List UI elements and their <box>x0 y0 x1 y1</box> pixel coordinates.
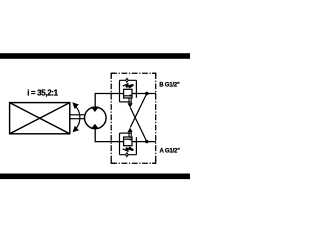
RV1 internal flow path <box>124 95 129 97</box>
relief valve RV2 (bottom, A to B) <box>120 133 137 155</box>
RV1 orifice diamond <box>126 78 129 82</box>
relief valve RV1 (top, B to A) <box>120 80 137 102</box>
RV2 pilot line top <box>120 132 132 134</box>
RV1 pilot line left <box>119 80 121 102</box>
RV1 pilot line right <box>135 80 137 98</box>
RV2 crossover wire to node B <box>130 94 147 128</box>
motor flow triangle bottom <box>91 124 99 129</box>
junction node A <box>145 140 148 143</box>
RV2 spring <box>123 147 134 151</box>
RV1 crossover wire to node A <box>130 108 147 142</box>
hydraulic motor M1 <box>85 107 107 129</box>
wire B: motor top port to port B <box>95 94 123 108</box>
top rule bar <box>0 53 190 59</box>
RV1 outlet channel <box>128 98 130 103</box>
RV1 pilot line top <box>120 79 137 81</box>
RV1 spring <box>123 84 134 88</box>
RV2 orifice diamond <box>126 153 129 157</box>
svg-text:i = 35,2:1: i = 35,2:1 <box>27 88 58 97</box>
wire A right segment <box>132 141 156 143</box>
RV2 internal flow path <box>124 138 129 140</box>
RV2 pilot line right <box>135 137 137 155</box>
gearbox G1 <box>10 103 70 134</box>
RV2 arrowhead <box>128 128 133 132</box>
rotation direction arrow (both directions) <box>72 102 80 132</box>
svg-text:A G1/2": A G1/2" <box>160 148 181 154</box>
junction node B <box>145 92 148 95</box>
wire B right segment <box>132 93 156 95</box>
bottom rule bar <box>0 174 190 180</box>
motor flow triangle top <box>91 107 99 112</box>
RV2 pilot line bottom <box>120 154 137 156</box>
RV1 pilot line bottom <box>120 101 132 103</box>
svg-text:B G1/2": B G1/2" <box>159 83 180 89</box>
RV1 outlet arrowhead <box>128 103 133 107</box>
RV2 pilot line left <box>119 133 121 155</box>
wire A: motor bottom port to port A <box>95 129 123 142</box>
RV1 valve body <box>124 89 132 98</box>
RV2 valve body <box>124 137 132 146</box>
enclosure boundary (dash-dot) <box>111 73 156 163</box>
shaft <box>70 115 84 119</box>
RV2 inlet channel <box>128 132 130 137</box>
